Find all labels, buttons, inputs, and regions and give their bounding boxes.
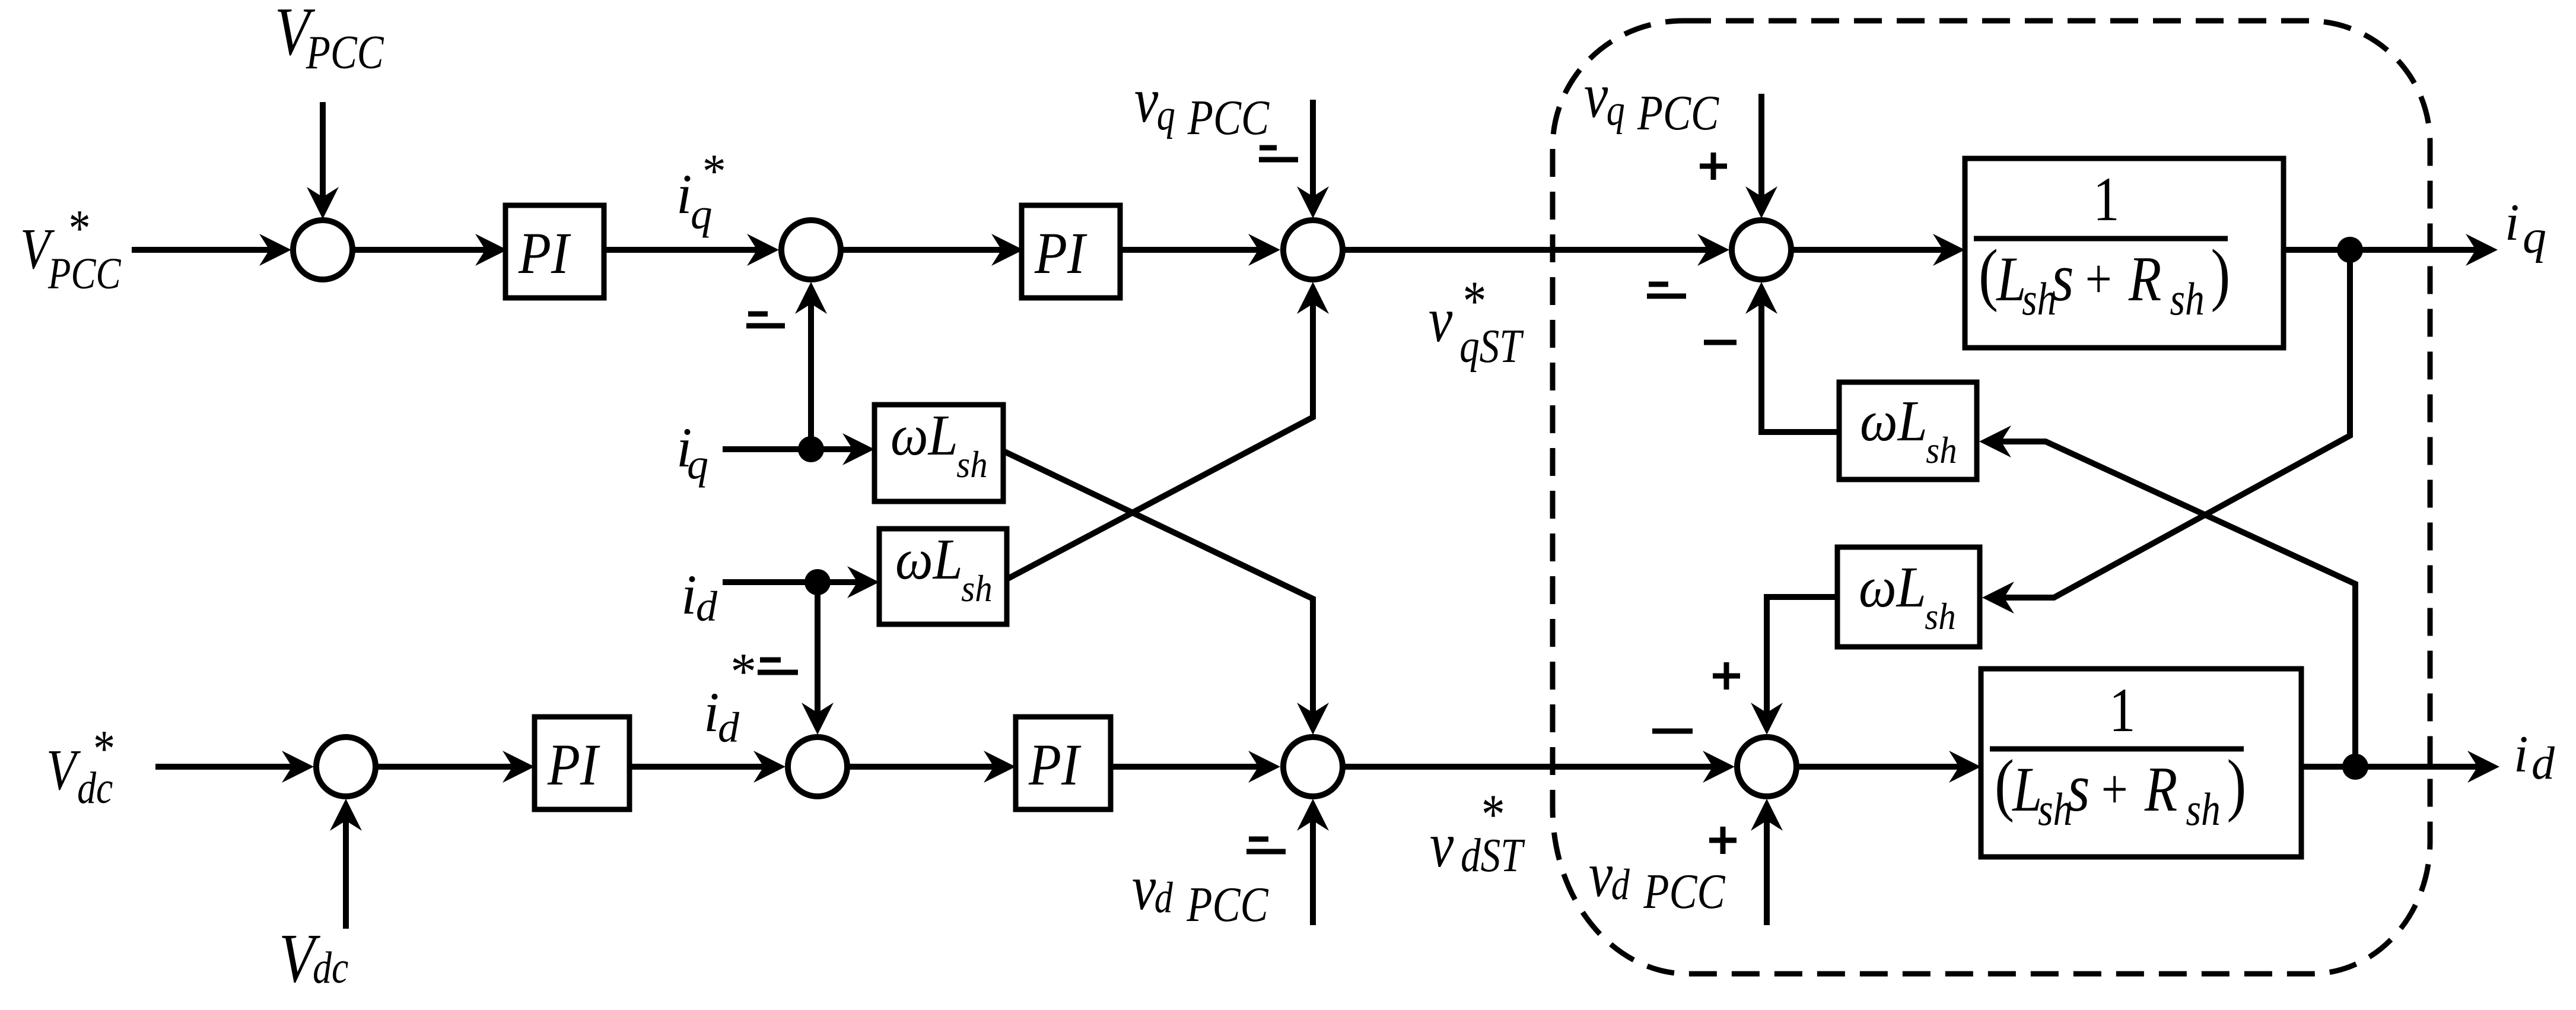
fraction bar of G1 xyxy=(1974,236,2228,242)
svg-text:q: q xyxy=(1607,85,1625,134)
arrowhead into P2 xyxy=(991,234,1023,266)
label PI in P3 xyxy=(547,732,600,798)
svg-text:q: q xyxy=(687,440,708,488)
svg-text:ωL: ωL xyxy=(891,404,958,468)
svg-text:d: d xyxy=(718,704,740,751)
wire P2 to summing junction S3 xyxy=(1120,247,1258,253)
wire gain W3 output into summing junction S4 (bottom) xyxy=(1761,304,1839,432)
arrowhead i_d into W2 xyxy=(847,566,879,598)
svg-text:(: ( xyxy=(1995,745,2014,823)
label i_d* before S6 xyxy=(704,643,754,751)
svg-text:PCC: PCC xyxy=(1186,876,1268,932)
label i_q (output) xyxy=(2505,194,2546,263)
arrowhead J2 into S6 top xyxy=(802,703,834,735)
summing junction S7 xyxy=(1283,737,1343,796)
svg-text:i: i xyxy=(2514,726,2528,783)
wire S1 to PI block P1 xyxy=(355,247,485,253)
wire gain W1 output diagonal down into summing junction S7 (top) xyxy=(1003,451,1313,713)
arrowhead V_PCC into S1 xyxy=(307,187,339,219)
arrowhead into G1 xyxy=(1933,234,1965,266)
label numerator 1 of G2 xyxy=(2109,676,2136,745)
arrowhead into S3 xyxy=(1248,234,1280,266)
svg-text:): ) xyxy=(2227,745,2246,823)
PI block P3 xyxy=(535,717,629,809)
summing junction S2 xyxy=(781,220,841,280)
svg-text:sh: sh xyxy=(2186,784,2221,836)
arrowhead into S2 xyxy=(747,234,779,266)
wire v_qPCC into summing junction S3 (top) xyxy=(1310,100,1316,196)
svg-text:v: v xyxy=(1584,60,1608,131)
label i_d (output) xyxy=(2514,726,2555,789)
svg-text:PCC: PCC xyxy=(47,249,121,298)
arrowhead into P3 xyxy=(503,751,535,783)
summing junction S3 xyxy=(1283,220,1343,280)
arrowhead node A feedback into W4 xyxy=(1982,582,2014,614)
svg-text:i: i xyxy=(681,563,697,626)
gain block W2 (omega L_sh) xyxy=(879,529,1007,624)
wire P3 to summing junction S6 xyxy=(629,764,764,770)
svg-text:d: d xyxy=(1611,860,1630,909)
svg-text:dc: dc xyxy=(77,763,113,813)
label v*_dST (after S7) xyxy=(1430,783,1525,882)
arrowhead output i_d xyxy=(2467,751,2499,783)
svg-text:qST: qST xyxy=(1459,320,1524,373)
wire v_dPCC into summing junction S7 (bottom) xyxy=(1310,821,1316,925)
label v_q PCC (inner, above S4) xyxy=(1584,60,1719,141)
label i_d (cross-coupling input) xyxy=(681,563,718,630)
label v_d PCC (inner, below S8) xyxy=(1589,839,1726,919)
svg-text:PI: PI xyxy=(1028,732,1082,798)
minus sign at S2 bottom input xyxy=(748,312,768,317)
arrowhead W3 output into S4 bottom xyxy=(1745,282,1777,314)
arrowhead v_dPCC into S7 xyxy=(1297,799,1329,831)
wire V*_PCC into summing junction S1 (left) xyxy=(132,247,270,253)
svg-text:d: d xyxy=(696,583,718,630)
svg-text:(: ( xyxy=(1979,235,1998,313)
svg-text:PCC: PCC xyxy=(1643,863,1725,919)
gain block W4 (omega L_sh feedback to S8) xyxy=(1837,547,1980,647)
PI block P2 xyxy=(1022,205,1120,298)
label denominator (L_sh s + R_sh) of G1 xyxy=(1979,235,2230,325)
svg-text:1: 1 xyxy=(2093,165,2120,234)
svg-text:dc: dc xyxy=(313,943,348,993)
label omega L_sh in W2 xyxy=(895,528,993,610)
svg-text:i: i xyxy=(704,681,719,744)
node J2 on i_d line xyxy=(804,569,831,595)
svg-text:sh: sh xyxy=(1925,596,1955,638)
svg-text:s: s xyxy=(2052,240,2074,316)
label denominator (L_sh s + R_sh) of G2 xyxy=(1995,745,2246,835)
label omega L_sh in W3 xyxy=(1860,389,1957,472)
svg-text:dST: dST xyxy=(1461,829,1525,882)
wire node A feedback down-left into gain block W4 xyxy=(2004,250,2350,598)
wire node J1 up into summing junction S2 (bottom) xyxy=(808,304,814,449)
label i_q* after P1 xyxy=(676,145,724,238)
arrowhead node B feedback into W3 xyxy=(1979,425,2011,458)
PI block P1 xyxy=(505,205,604,298)
svg-text:ωL: ωL xyxy=(895,528,963,592)
arrowhead W1 diagonal into S7 top xyxy=(1297,703,1329,735)
svg-text:s: s xyxy=(2068,750,2090,826)
summing junction S5 xyxy=(316,737,376,796)
label omega L_sh in W4 xyxy=(1859,555,1956,638)
svg-text:PCC: PCC xyxy=(1637,85,1719,140)
wire i_d input to gain block W2 through node J2 xyxy=(723,579,857,585)
label PI in P4 xyxy=(1028,732,1082,798)
svg-text:R: R xyxy=(2144,754,2177,825)
node B on i_d output xyxy=(2342,754,2368,780)
svg-text:): ) xyxy=(2211,235,2230,313)
arrowhead into G2 xyxy=(1949,751,1981,783)
svg-text:q: q xyxy=(2523,211,2546,263)
svg-text:d: d xyxy=(1155,873,1173,922)
summing junction S1 xyxy=(293,220,352,280)
label V_PCC (top input) xyxy=(275,0,384,78)
arrowhead into P1 xyxy=(475,234,507,266)
wire V*_dc into summing junction S5 (left) xyxy=(155,764,292,770)
svg-text:PI: PI xyxy=(547,732,600,798)
svg-text:PCC: PCC xyxy=(1187,90,1270,145)
wire S2 to PI block P2 xyxy=(843,247,1001,253)
wire G1 to output i_q through node A xyxy=(2284,247,2476,253)
wire v_dPCC into summing junction S8 (bottom, inside dashed box) xyxy=(1764,821,1770,925)
svg-text:sh: sh xyxy=(956,444,987,486)
label V*_dc (left input) xyxy=(46,720,113,813)
arrowhead V_dc into S5 xyxy=(330,799,362,831)
svg-text:i: i xyxy=(2505,194,2519,252)
wire node J2 down into summing junction S6 (top) xyxy=(815,582,820,713)
svg-text:1: 1 xyxy=(2109,676,2136,745)
svg-text:ωL: ωL xyxy=(1859,555,1926,620)
transfer-function block G1 xyxy=(1965,158,2284,348)
wire S3 to summing junction S4 xyxy=(1345,247,1707,253)
minus sign at S6 top input xyxy=(760,658,781,663)
svg-text:v: v xyxy=(1589,839,1613,910)
wire G2 to output i_d through node B xyxy=(2301,764,2478,770)
svg-text:+: + xyxy=(2101,758,2128,821)
arrowhead W4 output into S8 top xyxy=(1751,703,1783,735)
arrowhead J1 into S2 bottom xyxy=(795,282,827,314)
plus sign at S4 top input xyxy=(1700,164,1727,169)
svg-text:q: q xyxy=(1157,90,1175,139)
gain block W1 (omega L_sh) xyxy=(874,405,1003,501)
label numerator 1 of G1 xyxy=(2093,165,2120,234)
wire P4 to summing junction S7 xyxy=(1111,764,1258,770)
svg-text:PI: PI xyxy=(518,220,571,286)
svg-text:R: R xyxy=(2128,243,2161,315)
minus sign at S7 bottom input xyxy=(1249,837,1268,842)
arrowhead V*_PCC into S1 xyxy=(259,234,291,266)
wire S6 to PI block P4 xyxy=(850,764,994,770)
wire gain W4 output into summing junction S8 (top) xyxy=(1767,597,1837,713)
svg-text:sh: sh xyxy=(1926,430,1957,472)
svg-text:*: * xyxy=(728,643,754,701)
summing junction S6 xyxy=(788,737,847,796)
svg-text:sh: sh xyxy=(961,568,992,610)
svg-text:PI: PI xyxy=(1034,220,1087,286)
label PI in P1 xyxy=(518,220,571,286)
summing junction S8 xyxy=(1737,737,1796,796)
svg-text:i: i xyxy=(676,163,692,225)
minus sign at S4 left input xyxy=(1649,282,1668,287)
label v*_qST (after S3) xyxy=(1429,270,1524,373)
wire S8 to transfer-function block G2 xyxy=(1799,764,1959,770)
label omega L_sh in W1 xyxy=(891,404,988,486)
arrowhead into S6 xyxy=(753,751,785,783)
svg-text:V: V xyxy=(46,737,81,802)
arrowhead W2 diagonal into S3 bottom xyxy=(1297,282,1329,314)
label v_q PCC (outer, above S3) xyxy=(1134,65,1270,145)
arrowhead v_dPCC into S8 xyxy=(1751,799,1783,831)
wire V_dc into summing junction S5 (bottom) xyxy=(343,821,349,929)
label v_d PCC (outer, below S7) xyxy=(1132,852,1269,932)
transfer-function block G2 xyxy=(1981,669,2301,857)
wire node B feedback up-left into gain block W3 xyxy=(2001,442,2355,767)
label V*_PCC (left input) xyxy=(20,199,121,298)
arrowhead i_q into W1 xyxy=(842,433,874,465)
node J1 on i_q line xyxy=(798,436,824,462)
node A on i_q output xyxy=(2337,237,2363,263)
dashed plant boundary box xyxy=(1553,21,2430,974)
gain block W3 (omega L_sh feedback to S4) xyxy=(1839,382,1977,479)
svg-text:v: v xyxy=(1134,65,1159,136)
label V_dc (bottom input) xyxy=(279,919,348,997)
plus sign at S8 top input xyxy=(1713,674,1740,679)
label PI in P2 xyxy=(1034,220,1087,286)
PI block P4 xyxy=(1016,717,1111,809)
arrowhead S3 line into S4 xyxy=(1697,234,1729,266)
wire V_PCC into summing junction S1 (top) xyxy=(320,102,326,198)
label i_q (cross-coupling input) xyxy=(676,416,708,488)
svg-text:v: v xyxy=(1429,284,1453,355)
wire P1 to summing junction S2 xyxy=(604,247,757,253)
wire v_qPCC into summing junction S4 (top, inside dashed box) xyxy=(1758,94,1764,196)
wire S5 to PI block P3 xyxy=(378,764,513,770)
wire i_q input to gain block W1 through node J1 xyxy=(723,446,853,452)
arrowhead V*_dc into S5 xyxy=(282,751,314,783)
arrowhead into P4 xyxy=(984,751,1016,783)
wire S4 to transfer-function block G1 xyxy=(1793,247,1943,253)
arrowhead v_qPCC into S3 xyxy=(1297,186,1329,218)
fraction bar of G2 xyxy=(1990,747,2244,752)
arrowhead output i_q xyxy=(2466,234,2498,266)
svg-text:v: v xyxy=(1430,809,1454,881)
svg-text:v: v xyxy=(1132,852,1156,923)
arrowhead into S7 xyxy=(1248,751,1280,783)
svg-text:*: * xyxy=(700,145,724,198)
arrowhead v_qPCC into S4 xyxy=(1745,186,1777,218)
plus sign at S8 bottom input xyxy=(1709,838,1737,843)
wire S7 to summing junction S8 xyxy=(1345,764,1713,770)
svg-text:ωL: ωL xyxy=(1860,389,1928,453)
svg-text:PCC: PCC xyxy=(306,26,384,79)
svg-text:d: d xyxy=(2532,737,2555,789)
minus sign at S3 top input xyxy=(1260,145,1277,151)
svg-text:sh: sh xyxy=(2170,274,2205,325)
minus sign at S8 left input xyxy=(1652,729,1693,734)
svg-text:+: + xyxy=(2085,248,2112,310)
wire gain W2 output diagonal up into summing junction S3 (bottom) xyxy=(1007,304,1313,579)
minus sign at S4 bottom input xyxy=(1704,340,1737,345)
arrowhead S7 line into S8 xyxy=(1703,751,1735,783)
summing junction S4 xyxy=(1732,220,1791,280)
